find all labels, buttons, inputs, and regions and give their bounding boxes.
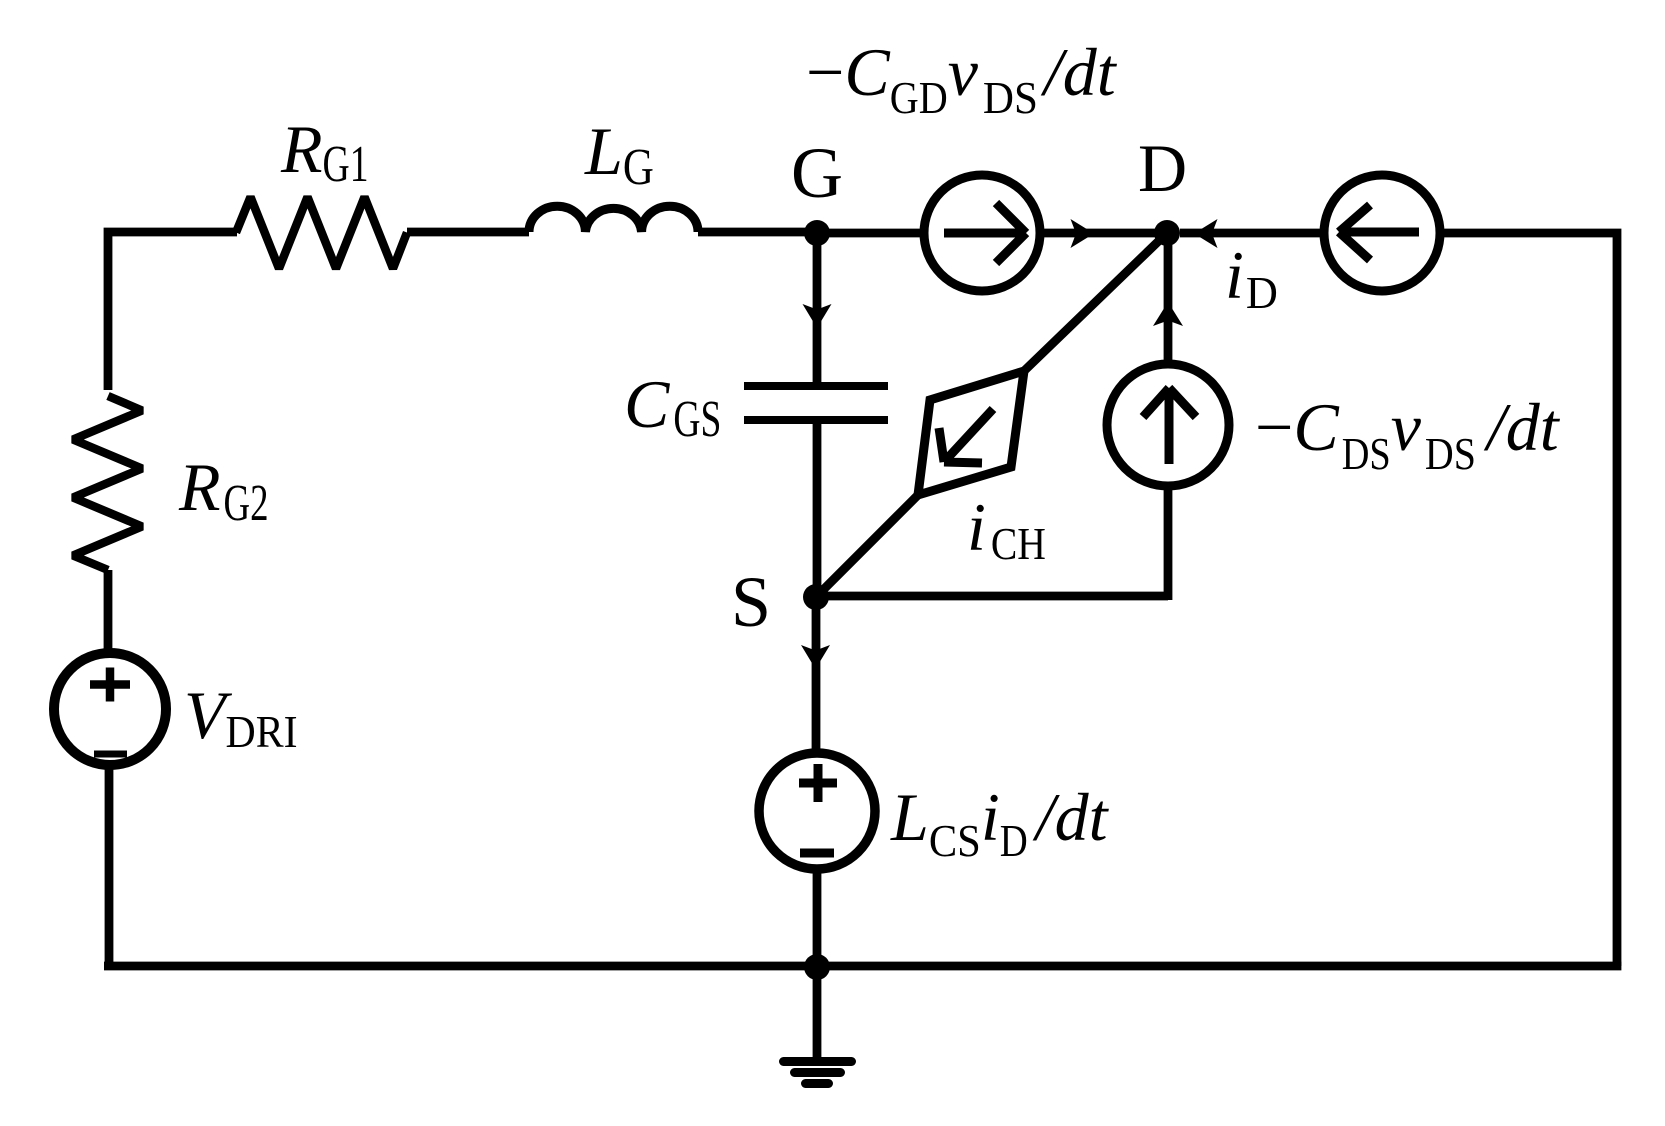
current source U1 (-C_GD dv_DS/dt) circle bbox=[924, 175, 1040, 291]
node S bbox=[803, 584, 829, 610]
resistor R2 (R_G2) bbox=[73, 396, 142, 570]
current source U2 (i_D, right) circle bbox=[1324, 175, 1440, 291]
capacitor C_GS bottom plate bbox=[744, 416, 888, 424]
wire: node S down to L_CS source bbox=[812, 597, 821, 752]
wire: node G to C_GD source bbox=[817, 229, 924, 238]
svg-text:G: G bbox=[791, 133, 843, 213]
wire: C_GD source to node D bbox=[1040, 229, 1167, 238]
wire: R_G2 to V_DRI source bbox=[104, 570, 113, 652]
svg-text:−CGDvDS/dt: −CGDvDS/dt bbox=[806, 34, 1118, 123]
current source U3 (-C_DS dv_DS/dt) circle bbox=[1107, 364, 1229, 486]
wire: L_CS source to bottom node bbox=[813, 870, 822, 966]
node G bbox=[804, 220, 830, 246]
inductor L1 (L_G) bbox=[529, 206, 698, 232]
wire: V_DRI source to bottom rail bbox=[105, 764, 114, 966]
arrowhead up on C_DS branch toward D bbox=[1153, 302, 1183, 326]
wire: L_G to node G bbox=[698, 228, 817, 237]
arrowhead down on gate branch bbox=[803, 304, 832, 328]
arrow inside right source (points left) bbox=[1339, 205, 1419, 260]
arrow inside C_DS source (points up) bbox=[1143, 388, 1196, 464]
capacitor C_GS top plate bbox=[744, 382, 888, 390]
resistor R1 (R_G1) bbox=[236, 197, 407, 269]
wire: C_DS branch vertical above circle to node D bbox=[1164, 233, 1173, 364]
minus sign in V_DRI source bbox=[94, 751, 127, 758]
wire: node S horizontal to C_DS branch bbox=[816, 592, 1168, 601]
wire: C_DS branch vertical below circle bbox=[1164, 486, 1173, 600]
wire: C_GS down to node S bbox=[813, 420, 822, 597]
wire: bottom rail bbox=[104, 962, 1621, 971]
svg-text:S: S bbox=[731, 562, 771, 642]
arrowhead into D from right (i_D direction) bbox=[1194, 219, 1218, 248]
wire: node D to right source bbox=[1180, 229, 1324, 238]
wire: gate branch G down to C_GS bbox=[813, 233, 822, 382]
arrowhead down between S and L_CS source bbox=[801, 645, 830, 669]
arrow inside i_CH source (points down-left) bbox=[939, 409, 993, 463]
wire: right source to top-right corner down right rail bbox=[1440, 233, 1617, 966]
arrowhead on wire toward D bbox=[1071, 219, 1095, 248]
plus sign in L_CS source bbox=[799, 764, 837, 802]
wire: bottom node to ground bbox=[813, 967, 822, 1058]
wire: between R_G1 and L_G bbox=[407, 228, 529, 237]
wire: diagonal from node D to dependent source bbox=[1024, 233, 1167, 371]
voltage source V1 (L_CS di_D/dt) circle bbox=[759, 753, 875, 869]
node D bbox=[1154, 220, 1180, 246]
dependent current source i_CH (diamond) bbox=[918, 371, 1024, 495]
plus sign in V_DRI source bbox=[90, 668, 130, 702]
node: bottom junction bbox=[804, 954, 830, 980]
arrow inside C_GD source (points right) bbox=[944, 203, 1026, 263]
minus sign in L_CS source bbox=[800, 849, 834, 858]
ground bbox=[784, 1062, 852, 1084]
svg-text:D: D bbox=[1138, 130, 1187, 206]
wire: top-left corner (top rail to left rail down to R_G2) bbox=[108, 232, 237, 390]
voltage source V2 (V_DRI) circle bbox=[54, 653, 166, 765]
wire: diagonal from dependent source to node S bbox=[816, 495, 918, 597]
